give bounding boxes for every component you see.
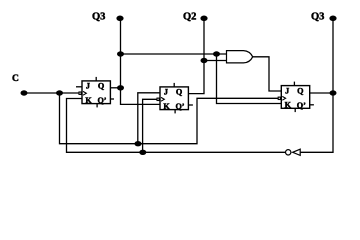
svg-text:Q: Q [98,82,105,91]
svg-text:K: K [285,101,292,110]
svg-text:Q: Q [297,86,304,95]
svg-text:Q2: Q2 [183,12,196,23]
svg-text:Q’: Q’ [175,102,184,111]
svg-text:J: J [285,86,289,95]
svg-text:J: J [86,82,90,91]
svg-text:Q3: Q3 [92,12,105,23]
svg-text:Q: Q [176,88,183,97]
svg-text:Q’: Q’ [297,101,306,110]
svg-text:Q3: Q3 [311,12,324,23]
svg-text:C: C [12,74,19,84]
svg-text:J: J [164,88,168,97]
svg-text:Q’: Q’ [97,96,106,105]
svg-text:K: K [163,102,170,111]
svg-text:K: K [85,96,92,105]
